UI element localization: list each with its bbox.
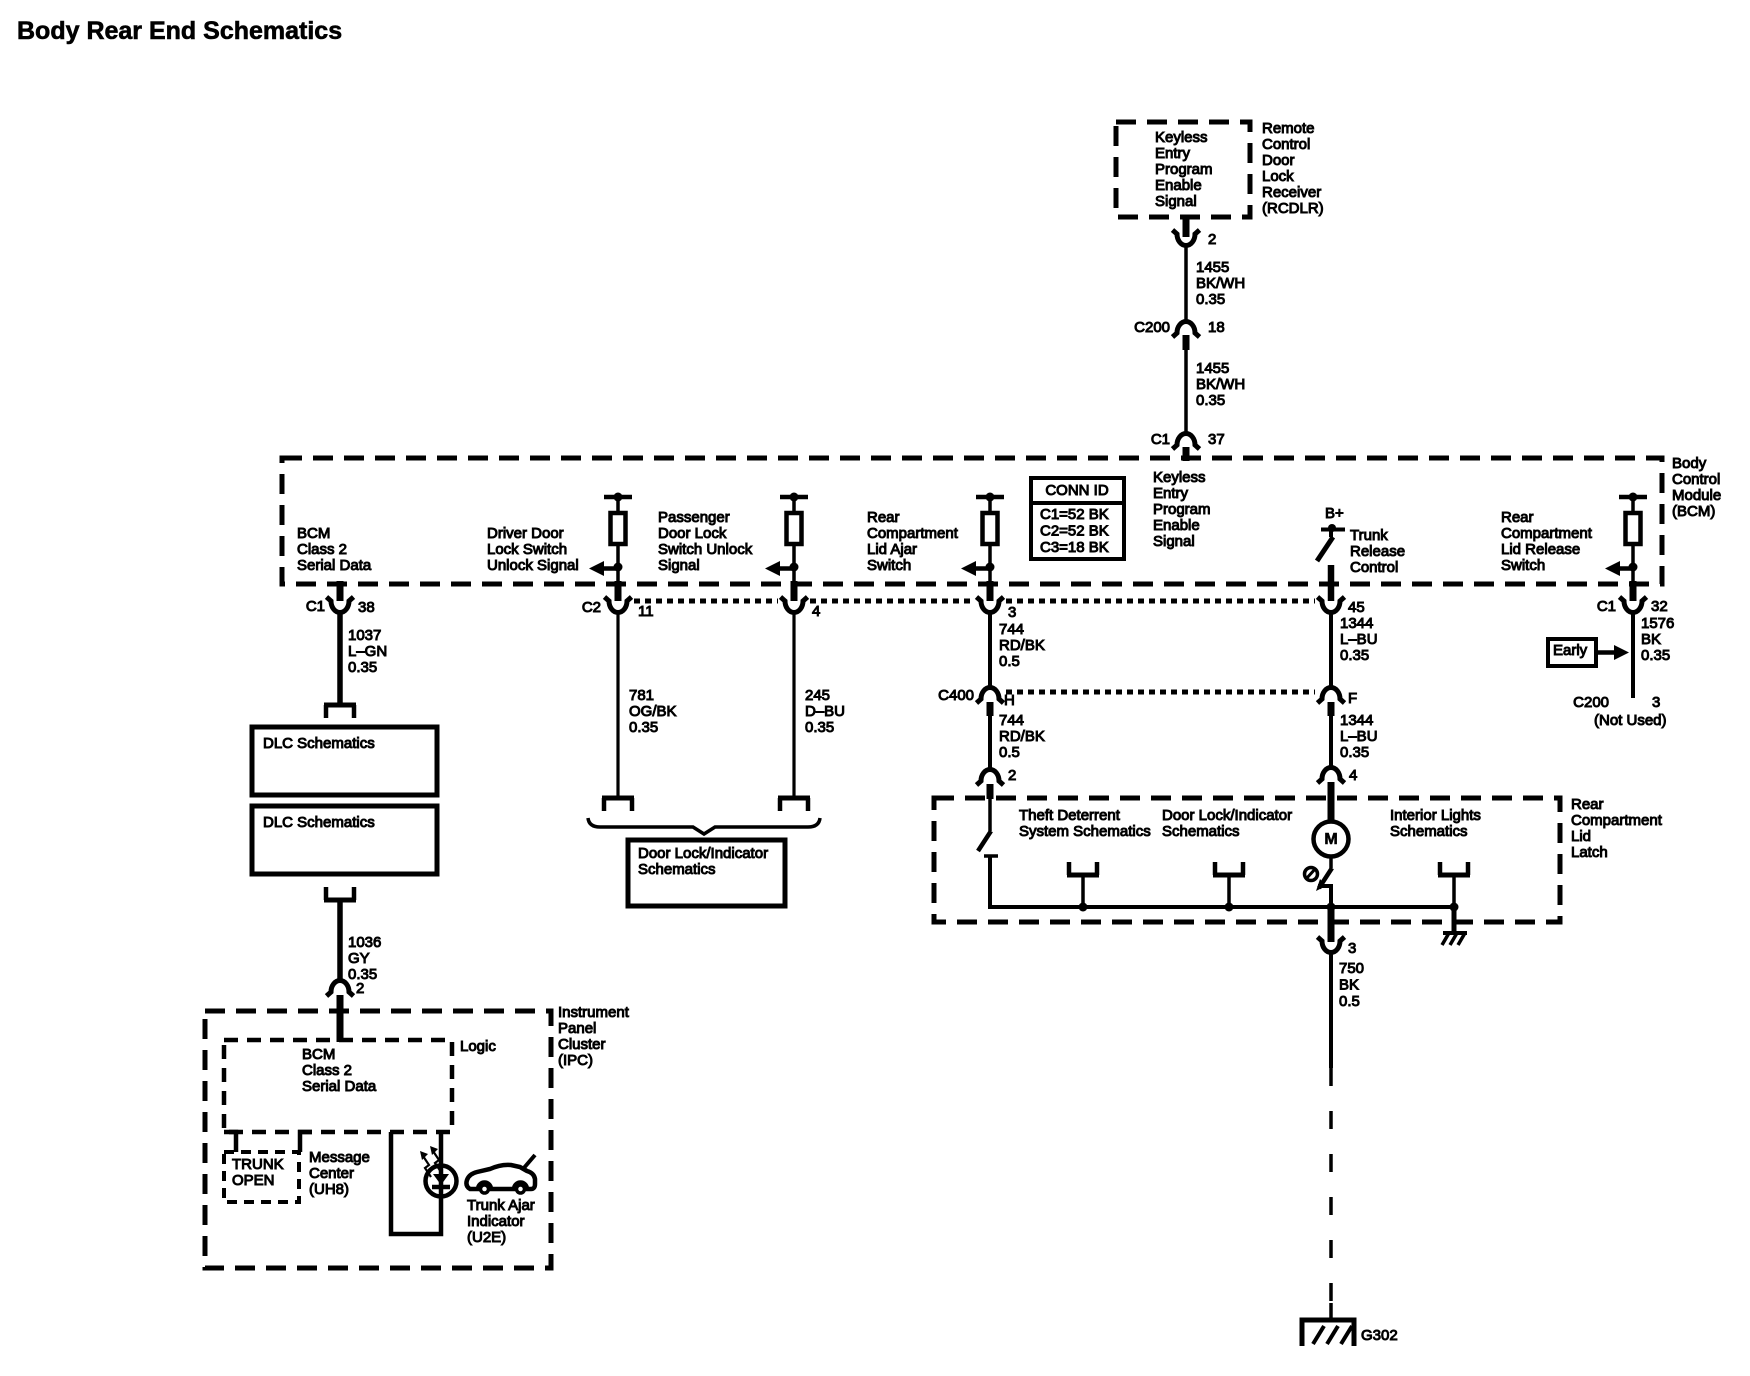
svg-text:BK/WH: BK/WH	[1196, 376, 1245, 393]
wire 1036 GY	[337, 900, 343, 981]
TRUNK OPEN message box	[224, 1152, 299, 1202]
svg-text:Lock: Lock	[1262, 168, 1294, 185]
wire 245 D-BU	[792, 613, 795, 798]
svg-text:3: 3	[1348, 940, 1356, 957]
wire 1455 BK/WH lower segment	[1184, 350, 1188, 434]
svg-text:L–BU: L–BU	[1340, 728, 1378, 745]
indicator drive loop wire	[391, 1132, 441, 1234]
BCM Class 2 Serial Data label (IPC)	[302, 1046, 377, 1095]
svg-text:Door Lock/Indicator: Door Lock/Indicator	[638, 845, 768, 862]
svg-text:C2=52 BK: C2=52 BK	[1040, 523, 1109, 540]
wire label 1344 L-BU 0.35 (lower)	[1340, 712, 1378, 761]
svg-text:744: 744	[999, 712, 1024, 729]
svg-text:Class 2: Class 2	[302, 1062, 352, 1079]
svg-text:Release: Release	[1350, 543, 1405, 560]
Rear Compartment Lid Latch dashed box	[934, 798, 1560, 922]
passenger door lock switch unlock signal label	[658, 509, 753, 574]
svg-text:BK: BK	[1339, 977, 1359, 994]
svg-text:BCM: BCM	[302, 1046, 335, 1063]
svg-text:Door Lock: Door Lock	[658, 525, 727, 542]
Trunk Ajar Indicator (U2E) label	[467, 1197, 535, 1246]
connector pin 2 of rear compartment lid latch	[977, 767, 1017, 799]
svg-text:2: 2	[1208, 231, 1216, 248]
svg-text:Enable: Enable	[1155, 177, 1202, 194]
svg-text:C200: C200	[1134, 319, 1170, 336]
svg-text:45: 45	[1348, 599, 1365, 616]
svg-text:Theft Deterrent: Theft Deterrent	[1019, 807, 1121, 824]
svg-text:Program: Program	[1155, 161, 1213, 178]
connector C1 pin 38	[306, 581, 375, 616]
svg-text:Module: Module	[1672, 487, 1721, 504]
svg-text:Trunk: Trunk	[1350, 527, 1388, 544]
svg-text:C2: C2	[582, 599, 601, 616]
svg-text:C3=18 BK: C3=18 BK	[1040, 539, 1109, 556]
latch name label	[1571, 796, 1663, 861]
off-page reference, door lock/indicator	[1213, 862, 1245, 912]
svg-text:Early: Early	[1553, 642, 1588, 659]
DLC Schematics box (upper)	[252, 727, 437, 795]
CONN ID table	[1031, 478, 1124, 559]
passenger door unlock signal arrow	[765, 561, 794, 576]
connector C1 pin 32	[1597, 581, 1668, 615]
svg-text:Logic: Logic	[460, 1038, 496, 1055]
off-page reference, interior lights	[1438, 862, 1470, 912]
driver door lock switch unlock signal label	[487, 525, 579, 574]
svg-text:Compartment: Compartment	[1571, 812, 1663, 829]
svg-text:Schematics: Schematics	[1162, 823, 1240, 840]
svg-text:Switch Unlock: Switch Unlock	[658, 541, 753, 558]
svg-text:Lid Release: Lid Release	[1501, 541, 1580, 558]
wire 1455 BK/WH upper segment	[1184, 247, 1188, 322]
BCM Class 2 Serial Data label	[297, 525, 372, 574]
off-page reference, driver door signal	[602, 798, 634, 811]
svg-text:11: 11	[638, 603, 654, 620]
svg-text:Entry: Entry	[1153, 485, 1189, 502]
svg-text:CONN ID: CONN ID	[1045, 482, 1109, 499]
wire label 1455 BK/WH 0.35 (upper)	[1196, 259, 1245, 308]
wire label 1344 L-BU 0.35 (upper)	[1340, 615, 1378, 664]
svg-text:0.35: 0.35	[1196, 392, 1225, 409]
svg-text:Program: Program	[1153, 501, 1211, 518]
svg-text:2: 2	[1008, 767, 1016, 784]
C400 connector dotted line	[1006, 690, 1315, 695]
svg-text:Rear: Rear	[1571, 796, 1604, 813]
svg-text:L–GN: L–GN	[348, 643, 387, 660]
svg-text:F: F	[1348, 690, 1357, 707]
svg-text:C1: C1	[1597, 598, 1616, 615]
svg-text:1036: 1036	[348, 934, 381, 951]
svg-text:Trunk Ajar: Trunk Ajar	[467, 1197, 535, 1214]
Interior Lights Schematics label	[1390, 807, 1481, 840]
IPC logic block dashed box	[224, 1040, 452, 1132]
connector pin 3 of rear compartment lid latch	[1318, 909, 1357, 957]
svg-text:2: 2	[356, 980, 364, 997]
svg-text:G302: G302	[1361, 1327, 1398, 1344]
trunk release control switch (driver inside BCM)	[1317, 524, 1345, 601]
svg-text:1576: 1576	[1641, 615, 1674, 632]
wire label 1576 BK 0.35	[1641, 615, 1674, 664]
svg-text:750: 750	[1339, 960, 1364, 977]
svg-text:0.35: 0.35	[629, 719, 658, 736]
BCM pull-up resistor, rear compartment lid ajar switch input	[976, 493, 1004, 583]
wire label 744 RD/BK 0.5 (lower)	[999, 712, 1045, 761]
Early tag box with arrow	[1548, 639, 1629, 666]
wire label 245 D-BU 0.35	[805, 687, 845, 736]
svg-text:(U2E): (U2E)	[467, 1229, 506, 1246]
svg-text:Panel: Panel	[558, 1020, 596, 1037]
svg-text:4: 4	[812, 603, 820, 620]
BCM pull-up resistor, passenger door lock switch input	[780, 493, 808, 583]
svg-text:1037: 1037	[348, 627, 381, 644]
wire label 1037 L-GN 0.35	[348, 627, 387, 676]
svg-text:System Schematics: System Schematics	[1019, 823, 1151, 840]
svg-text:Serial Data: Serial Data	[297, 557, 372, 574]
wire 744 RD/BK lower	[988, 716, 992, 770]
connector pin 2 of IPC	[327, 980, 365, 1042]
svg-text:(BCM): (BCM)	[1672, 503, 1715, 520]
svg-text:Class 2: Class 2	[297, 541, 347, 558]
svg-text:18: 18	[1208, 319, 1225, 336]
svg-text:Center: Center	[309, 1165, 354, 1182]
svg-text:Control: Control	[1672, 471, 1720, 488]
svg-text:Switch: Switch	[867, 557, 911, 574]
svg-text:DLC Schematics: DLC Schematics	[263, 735, 375, 752]
rear compartment lid release switch arrow	[1605, 561, 1633, 576]
wire 744 RD/BK upper	[988, 613, 992, 688]
rear compartment lid ajar switch arrow	[961, 561, 990, 576]
svg-text:4: 4	[1349, 767, 1357, 784]
svg-text:Body: Body	[1672, 455, 1707, 472]
svg-text:1344: 1344	[1340, 615, 1373, 632]
RCDLR internal signal label	[1155, 129, 1213, 210]
svg-text:C1: C1	[1151, 431, 1170, 448]
Logic label	[460, 1038, 496, 1055]
connector C400 pin F (inline)	[1318, 688, 1358, 717]
wire 1037 L-GN	[337, 613, 343, 705]
svg-text:32: 32	[1651, 598, 1668, 615]
svg-text:Lid: Lid	[1571, 828, 1591, 845]
rear compartment lid release switch label	[1501, 509, 1593, 574]
svg-text:C1: C1	[306, 598, 325, 615]
svg-text:Interior Lights: Interior Lights	[1390, 807, 1481, 824]
svg-text:C200: C200	[1573, 694, 1609, 711]
svg-text:Passenger: Passenger	[658, 509, 730, 526]
wire 781 OG/BK	[616, 613, 619, 798]
off-page reference, theft deterrent	[1067, 862, 1099, 912]
C2 connector dotted harness line	[634, 599, 1315, 604]
svg-text:37: 37	[1208, 431, 1225, 448]
Door Lock/Indicator Schematics box	[628, 840, 785, 906]
wire label 1036 GY 0.35	[348, 934, 381, 983]
svg-text:Switch: Switch	[1501, 557, 1545, 574]
Body Control Module (BCM) dashed box	[282, 458, 1662, 584]
BCM pull-up resistor, driver door lock switch input	[604, 493, 632, 583]
connector C2 pin 3	[977, 581, 1017, 621]
svg-text:Indicator: Indicator	[467, 1213, 525, 1230]
svg-text:Latch: Latch	[1571, 844, 1608, 861]
svg-text:Serial Data: Serial Data	[302, 1078, 377, 1095]
svg-text:0.5: 0.5	[999, 653, 1020, 670]
svg-text:3: 3	[1008, 604, 1016, 621]
svg-text:(RCDLR): (RCDLR)	[1262, 200, 1324, 217]
svg-text:0.35: 0.35	[1340, 647, 1369, 664]
svg-text:781: 781	[629, 687, 654, 704]
wire label 1455 BK/WH 0.35 (lower)	[1196, 360, 1245, 409]
RCDLR box (Remote Control Door Lock Receiver)	[1116, 122, 1250, 217]
svg-text:Receiver: Receiver	[1262, 184, 1321, 201]
svg-text:Remote: Remote	[1262, 120, 1315, 137]
svg-text:1455: 1455	[1196, 259, 1229, 276]
svg-text:Compartment: Compartment	[1501, 525, 1593, 542]
svg-text:Rear: Rear	[867, 509, 900, 526]
driver door unlock signal arrow	[589, 561, 618, 576]
connector C1 pin 37 into BCM	[1151, 431, 1225, 461]
wire 1576 BK	[1631, 613, 1635, 698]
svg-text:1455: 1455	[1196, 360, 1229, 377]
svg-text:0.35: 0.35	[348, 659, 377, 676]
wire 1344 L-BU lower	[1329, 716, 1333, 768]
svg-text:0.35: 0.35	[805, 719, 834, 736]
rear compartment lid ajar switch label	[867, 509, 959, 574]
svg-text:M: M	[1324, 831, 1337, 848]
svg-text:Body Rear End Schematics: Body Rear End Schematics	[17, 17, 342, 45]
svg-text:TRUNK: TRUNK	[232, 1156, 284, 1173]
ground G302	[1302, 1303, 1398, 1346]
svg-text:245: 245	[805, 687, 830, 704]
IPC name label	[558, 1004, 630, 1069]
B+ label	[1325, 505, 1344, 522]
svg-text:L–BU: L–BU	[1340, 631, 1378, 648]
svg-text:744: 744	[999, 621, 1024, 638]
svg-text:B+: B+	[1325, 505, 1344, 522]
svg-text:0.5: 0.5	[999, 744, 1020, 761]
trunk release motor M	[1314, 822, 1349, 857]
svg-text:Door: Door	[1262, 152, 1295, 169]
svg-text:Keyless: Keyless	[1153, 469, 1206, 486]
connector C200 pin 18 (inline)	[1134, 319, 1225, 350]
svg-text:BK/WH: BK/WH	[1196, 275, 1245, 292]
svg-text:RD/BK: RD/BK	[999, 728, 1045, 745]
svg-text:Schematics: Schematics	[1390, 823, 1468, 840]
svg-text:GY: GY	[348, 950, 370, 967]
wire to ground (dashed)	[1329, 1068, 1333, 1316]
svg-text:Keyless: Keyless	[1155, 129, 1208, 146]
Message Center (UH8) label	[309, 1149, 370, 1198]
wire 750 BK	[1329, 953, 1333, 1068]
svg-text:C1=52 BK: C1=52 BK	[1040, 506, 1109, 523]
svg-text:0.5: 0.5	[1339, 993, 1360, 1010]
svg-text:Entry: Entry	[1155, 145, 1191, 162]
car icon with open trunk	[466, 1155, 535, 1193]
svg-text:DLC Schematics: DLC Schematics	[263, 814, 375, 831]
svg-text:BCM: BCM	[297, 525, 330, 542]
svg-text:3: 3	[1652, 694, 1660, 711]
trunk release control label	[1350, 527, 1405, 576]
wire label 781 OG/BK 0.35	[629, 687, 677, 736]
svg-text:Control: Control	[1262, 136, 1310, 153]
connector pin 2 of RCDLR	[1173, 215, 1217, 248]
lid ajar switch contact (in latch)	[978, 798, 1454, 907]
svg-text:0.35: 0.35	[1641, 647, 1670, 664]
svg-text:Rear: Rear	[1501, 509, 1534, 526]
off-page reference to DLC (upper)	[324, 705, 356, 718]
trunk ajar indicator LED	[420, 1146, 457, 1197]
C200 pin 3 not used label	[1573, 694, 1666, 729]
title text	[17, 17, 342, 45]
svg-text:Enable: Enable	[1153, 517, 1200, 534]
RCDLR name label	[1262, 120, 1324, 217]
svg-text:D–BU: D–BU	[805, 703, 845, 720]
connector C2 pin 45	[1318, 597, 1365, 616]
latch internal chassis ground	[1442, 907, 1467, 945]
svg-text:Driver Door: Driver Door	[487, 525, 564, 542]
svg-text:0.35: 0.35	[1340, 744, 1369, 761]
BCM name label	[1672, 455, 1721, 520]
svg-text:Compartment: Compartment	[867, 525, 959, 542]
brace grouping both signals	[588, 818, 820, 834]
svg-text:Lock Switch: Lock Switch	[487, 541, 567, 558]
Door Lock/Indicator Schematics label (latch)	[1162, 807, 1292, 840]
svg-text:(IPC): (IPC)	[558, 1052, 593, 1069]
wire label 750 BK 0.5	[1339, 960, 1364, 1010]
Theft Deterrent System Schematics label	[1019, 807, 1151, 840]
connector C2 pin 4	[781, 581, 821, 620]
svg-text:Signal: Signal	[1155, 193, 1197, 210]
connector C400 pin H (inline)	[938, 687, 1015, 716]
wire 1344 L-BU upper	[1329, 613, 1333, 688]
connector C2 pin 11	[582, 581, 654, 620]
DLC Schematics box (lower)	[252, 806, 437, 874]
BCM pull-up resistor, rear compartment lid release switch input	[1619, 493, 1647, 583]
off-page reference from DLC (lower)	[324, 887, 356, 900]
message center connection steps	[224, 1132, 312, 1152]
svg-text:1344: 1344	[1340, 712, 1373, 729]
svg-text:C400: C400	[938, 687, 974, 704]
Instrument Panel Cluster (IPC) dashed box	[205, 1011, 551, 1268]
svg-text:Instrument: Instrument	[558, 1004, 630, 1021]
svg-text:(Not Used): (Not Used)	[1594, 712, 1667, 729]
wire label 744 RD/BK 0.5 (upper)	[999, 621, 1045, 670]
svg-text:(UH8): (UH8)	[309, 1181, 349, 1198]
svg-text:Schematics: Schematics	[638, 861, 716, 878]
svg-text:Lid Ajar: Lid Ajar	[867, 541, 917, 558]
motor-driven pawl switch	[1305, 857, 1336, 912]
svg-text:Door Lock/Indicator: Door Lock/Indicator	[1162, 807, 1292, 824]
svg-text:Unlock Signal: Unlock Signal	[487, 557, 579, 574]
svg-text:BK: BK	[1641, 631, 1661, 648]
keyless entry program enable signal label (inside BCM)	[1153, 469, 1211, 550]
svg-text:RD/BK: RD/BK	[999, 637, 1045, 654]
off-page reference, passenger door signal	[778, 798, 810, 811]
svg-text:Signal: Signal	[658, 557, 700, 574]
svg-text:Cluster: Cluster	[558, 1036, 606, 1053]
svg-text:38: 38	[358, 599, 375, 616]
svg-text:OG/BK: OG/BK	[629, 703, 677, 720]
svg-text:0.35: 0.35	[1196, 291, 1225, 308]
connector pin 4 of rear compartment lid latch	[1318, 767, 1358, 822]
svg-text:Message: Message	[309, 1149, 370, 1166]
svg-text:H: H	[1004, 692, 1015, 709]
svg-text:Control: Control	[1350, 559, 1398, 576]
svg-text:Signal: Signal	[1153, 533, 1195, 550]
svg-text:OPEN: OPEN	[232, 1172, 275, 1189]
